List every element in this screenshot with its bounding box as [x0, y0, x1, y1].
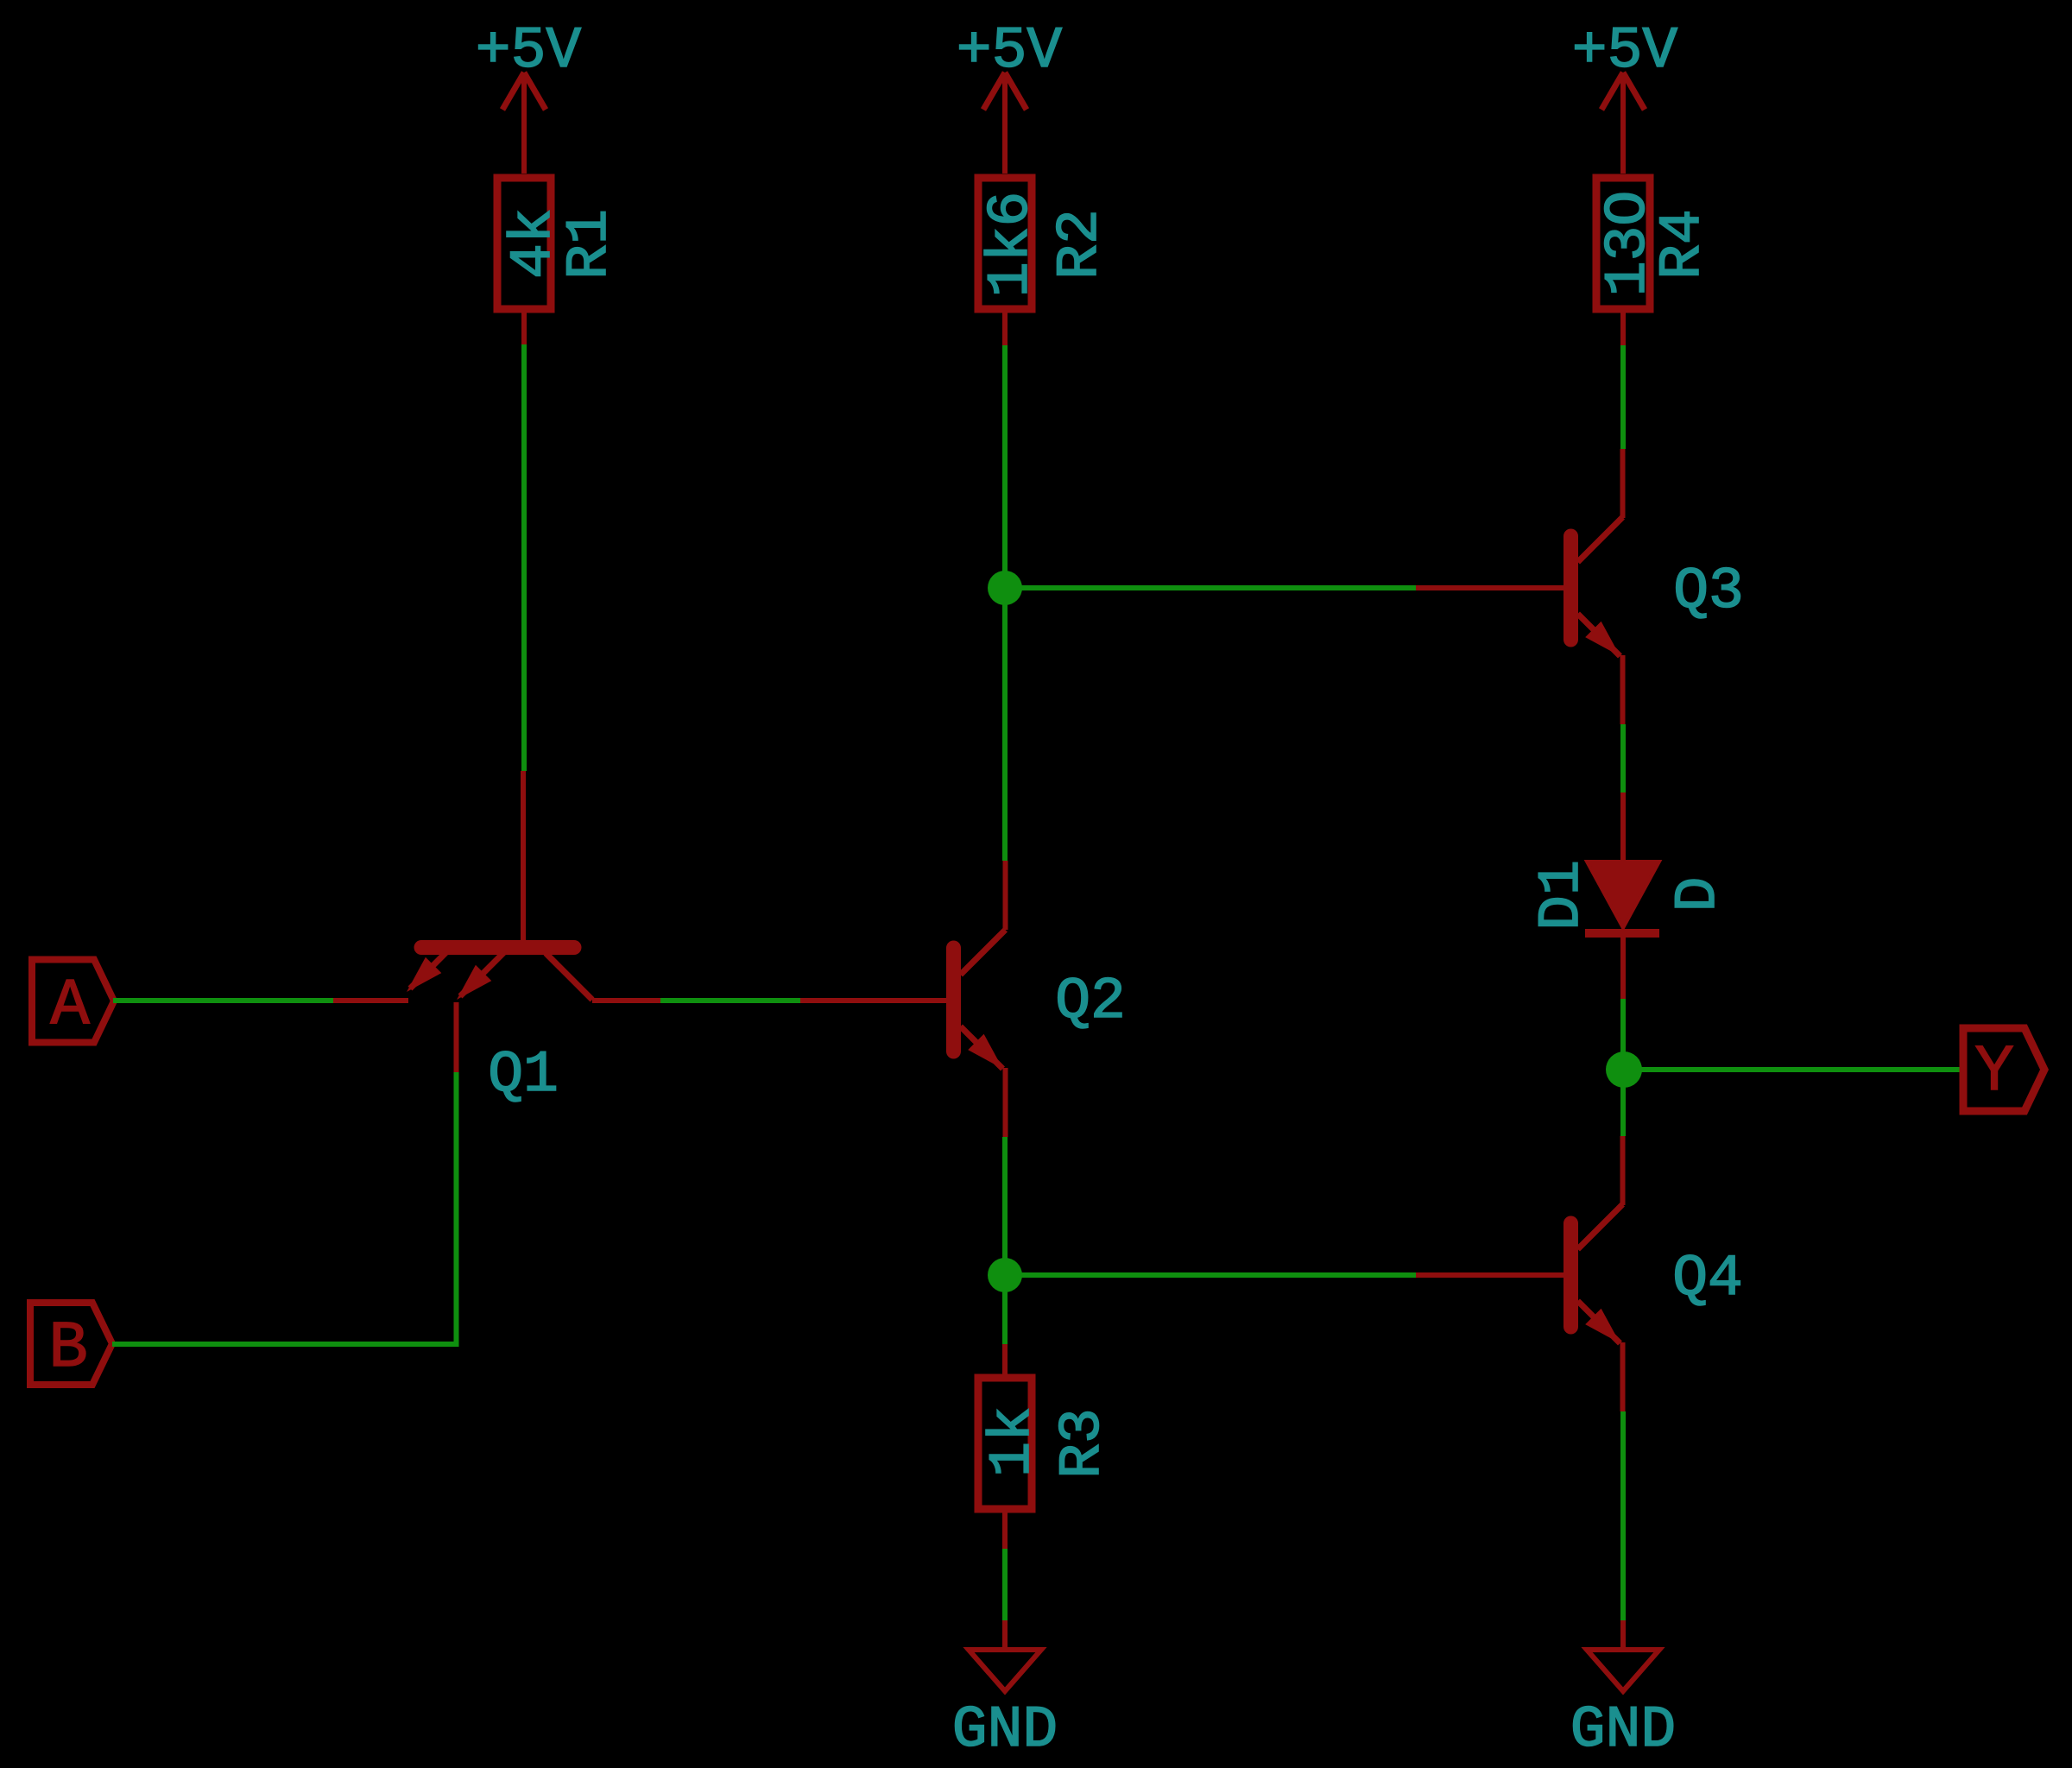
power +5V symbol 2 [983, 73, 1027, 174]
transistor Q3 [1571, 517, 1623, 656]
transistor Q3 pins [1620, 449, 1626, 724]
transistor Q2 base pin [800, 998, 947, 1003]
wire to output Y [1624, 1067, 1962, 1072]
transistor Q3 emitter arrow [1585, 622, 1620, 656]
resistor R4 pins [1620, 309, 1626, 345]
svg-text:Y: Y [1974, 1035, 2014, 1109]
wire junction to Q4 base [1005, 1272, 1416, 1278]
transistor Q4 base pin [1416, 1272, 1563, 1278]
svg-text:+5V: +5V [476, 18, 582, 85]
svg-text:D: D [1665, 877, 1732, 912]
resistor R1 pins [521, 309, 527, 345]
resistor R1 [497, 178, 551, 309]
resistor R3 pins [1002, 1344, 1008, 1549]
svg-text:+5V: +5V [1572, 18, 1678, 85]
input label B [30, 1303, 112, 1385]
transistor Q4 [1571, 1204, 1623, 1343]
wire junction to Q3 base [1005, 585, 1416, 590]
transistor Q1 emitter arrow 1 [407, 957, 441, 992]
ground GND 2 [1587, 1650, 1659, 1691]
svg-text:R2: R2 [1047, 209, 1114, 280]
diode D1 cathode pin [1620, 938, 1626, 999]
power +5V symbol 3 [1601, 73, 1645, 174]
ground GND 2 pin [1620, 1620, 1626, 1650]
transistor Q4 collector pin [1620, 1136, 1626, 1205]
svg-text:+5V: +5V [957, 18, 1063, 85]
wire R4 to Q3 collector [1620, 345, 1626, 449]
transistor Q1 pins [333, 1001, 660, 1072]
diode D1 [1587, 862, 1659, 928]
svg-text:R3: R3 [1050, 1408, 1116, 1479]
diode D1 cathode bar [1585, 929, 1659, 938]
diode D1 anode pin [1620, 792, 1626, 862]
svg-text:GND: GND [952, 1697, 1058, 1764]
transistor Q2 emitter arrow [968, 1034, 1002, 1069]
resistor R3 [978, 1378, 1032, 1509]
junction node Q2-Q4 [988, 1258, 1022, 1292]
transistor Q2 [954, 930, 1006, 1069]
svg-text:1k6: 1k6 [978, 192, 1045, 297]
svg-text:Q3: Q3 [1673, 559, 1744, 625]
power +5V symbol 1 [502, 73, 546, 174]
transistor Q4 emitter arrow [1585, 1309, 1620, 1343]
wire Q1 collector to Q2 base [660, 998, 800, 1003]
svg-text:R4: R4 [1650, 209, 1716, 280]
wire Q4 emitter to GND [1620, 1411, 1626, 1620]
svg-text:GND: GND [1570, 1697, 1676, 1764]
svg-text:D1: D1 [1529, 860, 1595, 931]
transistor Q1 base pin [521, 771, 526, 941]
wire Q3 emitter to D1 [1620, 724, 1626, 792]
svg-text:R1: R1 [557, 209, 623, 280]
svg-text:B: B [48, 1311, 88, 1386]
wire R1 to Q1 base [521, 344, 527, 771]
svg-text:Q1: Q1 [488, 1042, 559, 1108]
wire R2 to Q2 collector [1002, 345, 1008, 861]
input label A [32, 960, 114, 1043]
svg-text:Q2: Q2 [1055, 969, 1126, 1035]
transistor Q4 emitter pin [1620, 1342, 1626, 1411]
transistor Q1 [410, 948, 592, 1001]
ground GND 1 pin [1002, 1620, 1008, 1650]
wire D1 to Q4 collector [1620, 999, 1626, 1136]
resistor R4 [1596, 178, 1650, 309]
junction node Y [1606, 1051, 1642, 1088]
transistor Q3 base pin [1416, 585, 1563, 590]
output label Y [1963, 1028, 2044, 1111]
junction node R2-Q3 [988, 571, 1022, 605]
wire A to Q1 [113, 998, 333, 1003]
wire B to Q1 emitter 2 [112, 1072, 457, 1344]
svg-text:Q4: Q4 [1672, 1246, 1743, 1312]
resistor R2 [978, 178, 1032, 309]
wire R3 to GND [1002, 1549, 1008, 1620]
svg-text:1k: 1k [980, 1406, 1046, 1477]
resistor R2 pins [1002, 309, 1008, 345]
transistor Q2 pins [1003, 861, 1008, 1137]
transistor Q1 emitter arrow 2 [457, 965, 491, 1000]
ground GND 1 [969, 1650, 1041, 1691]
wire Q2 emitter to R3 [1002, 1137, 1008, 1344]
svg-text:A: A [50, 969, 90, 1043]
